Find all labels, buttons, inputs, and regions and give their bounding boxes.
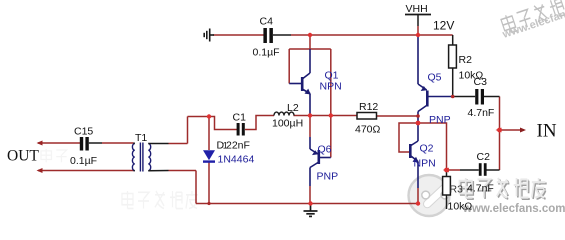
resistor R2 — [449, 45, 457, 68]
svg-text:4.7nF: 4.7nF — [468, 107, 495, 119]
svg-text:IN: IN — [537, 121, 557, 142]
svg-text:PNP: PNP — [429, 114, 451, 126]
C2 left pin marker — [443, 168, 449, 173]
svg-text:T1: T1 — [135, 132, 147, 144]
wire T1 top right to corner — [169, 143, 188, 145]
svg-text:R12: R12 — [359, 101, 378, 113]
wire IN stub — [500, 129, 525, 131]
wire Q1 link down to Q6 base column — [330, 49, 332, 158]
watermark bottom-right: elecfans logo — [409, 175, 450, 216]
wire C2 left red part — [447, 169, 461, 171]
svg-text:C15: C15 — [74, 126, 93, 138]
svg-text:C1: C1 — [233, 112, 247, 124]
transistor Q5 (PNP) — [418, 35, 453, 141]
ground rail — [196, 203, 418, 205]
wire R12 right to collector column — [377, 115, 419, 117]
svg-text:100µH: 100µH — [272, 118, 303, 130]
wire Q2 base staircase — [399, 123, 447, 170]
svg-text:470Ω: 470Ω — [355, 124, 381, 136]
wire Q6 collector lower red — [309, 186, 311, 204]
wire gnd1 to C4 — [213, 34, 264, 36]
transistor Q1 (NPN) — [289, 49, 310, 116]
wire Q5 base black part to C3 — [453, 96, 476, 98]
wire diode node jog to C1 — [209, 117, 237, 130]
capacitor C2 — [479, 163, 487, 176]
wire to diode node — [188, 116, 210, 118]
wire C2 right plate to corner — [487, 169, 500, 171]
svg-text:R3: R3 — [450, 184, 464, 196]
wire VHH stem upper — [417, 15, 419, 27]
wire OUT bottom lead to T1 — [38, 170, 134, 172]
svg-text:Q6: Q6 — [318, 144, 332, 156]
ground (top left, sideways) — [204, 29, 214, 42]
wire C3 right corner down to C2 — [499, 97, 501, 171]
wire T1 bottom right — [169, 170, 197, 172]
wire C4 to R2 corner (main top rail) — [291, 34, 453, 36]
svg-text:R2: R2 — [459, 54, 473, 66]
capacitor C15 — [80, 137, 89, 151]
transistor Q2 (NPN) — [410, 141, 418, 188]
wire C15 right black part — [89, 142, 102, 144]
svg-text:10kΩ: 10kΩ — [448, 201, 473, 213]
transistor Q6 (PNP) — [310, 137, 331, 186]
wire Q2 emitter lower red — [417, 188, 419, 204]
wire VHH stem lower — [417, 26, 419, 35]
wire Q1 base-collector link horizontal — [289, 48, 331, 50]
svg-text:C4: C4 — [260, 16, 274, 28]
svg-text:NPN: NPN — [414, 158, 436, 170]
wire OUT top lead — [38, 142, 80, 144]
svg-text:NPN: NPN — [320, 81, 342, 93]
wire C4 plates stubs — [273, 34, 291, 36]
svg-text:Q2: Q2 — [420, 143, 434, 155]
wire Q1 base vertical — [288, 49, 290, 84]
capacitor C4 — [263, 28, 273, 43]
wire corner up — [187, 117, 189, 144]
svg-text:4.7nF: 4.7nF — [467, 183, 494, 195]
svg-text:12V: 12V — [433, 19, 454, 33]
resistor R3 — [443, 177, 451, 196]
svg-text:22nF: 22nF — [226, 140, 250, 152]
svg-text:PNP: PNP — [317, 171, 339, 183]
svg-text:VHH: VHH — [406, 3, 428, 15]
capacitor C3 — [475, 89, 484, 105]
wire R2 bottom lead — [452, 68, 454, 97]
svg-text:0.1µF: 0.1µF — [253, 47, 280, 59]
watermark top-right (elecfans stamp, rotated) — [496, 0, 565, 41]
svg-text:C2: C2 — [477, 151, 491, 163]
OUT pin markers — [37, 141, 43, 146]
watermark ghost near OUT — [41, 149, 67, 162]
capacitor C1 — [237, 123, 245, 136]
wire Q1 collector stub — [309, 35, 311, 49]
power VHH — [405, 14, 431, 16]
svg-text:Q5: Q5 — [428, 72, 442, 84]
wire R3 top lead — [446, 170, 448, 177]
svg-text:C3: C3 — [474, 76, 488, 88]
wire diode top lead — [208, 117, 210, 151]
svg-text:L2: L2 — [287, 102, 299, 114]
wire diode bottom lead — [208, 163, 210, 204]
wire C3 right plate to corner — [484, 96, 500, 98]
wire R3 bottom lead — [446, 195, 448, 209]
resistor R12 — [357, 113, 377, 120]
ground (bottom) — [304, 204, 318, 217]
wire C15 to T1 red part — [102, 142, 134, 144]
wire L2 to R12 — [294, 115, 358, 117]
wire C2 left black part — [460, 169, 479, 171]
inductor L2 — [274, 112, 294, 115]
wire R2 top lead — [452, 35, 454, 45]
svg-text:OUT: OUT — [7, 148, 39, 165]
svg-text:0.1µF: 0.1µF — [70, 155, 97, 167]
transformer T1 — [132, 143, 150, 172]
wire down to ground rail — [195, 171, 197, 204]
diode D1 (1N4464) — [203, 150, 215, 160]
svg-text:www.elecfans.com: www.elecfans.com — [462, 203, 565, 215]
watermark bottom-right: 电子发烧友 (pseudo glyphs, embossed) — [460, 178, 547, 199]
watermark ghost below T1 — [122, 191, 198, 209]
wire C1 right corner up to L2 — [245, 116, 274, 130]
svg-text:1N4464: 1N4464 — [218, 154, 255, 166]
wire Q1 emitter node down to Q6 — [309, 116, 311, 138]
node IN marker — [520, 128, 526, 133]
